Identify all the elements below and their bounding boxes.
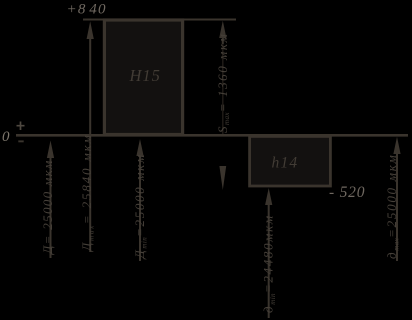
svg-text:Дmin=25000 мкм: Дmin=25000 мкм xyxy=(132,153,148,260)
svg-text:H15: H15 xyxy=(129,66,161,85)
svg-text:Д= 25000 мкм: Д= 25000 мкм xyxy=(40,159,55,256)
svg-text:+840: +840 xyxy=(67,2,107,18)
svg-text:h14: h14 xyxy=(272,155,299,172)
svg-text:дmax=25000 мкм: дmax=25000 мкм xyxy=(384,153,400,259)
svg-text:0: 0 xyxy=(2,129,10,145)
svg-text:Дmax= 25840 мкм: Дmax= 25840 мкм xyxy=(79,133,95,253)
svg-text:дmin=24480мкм: дmin=24480мкм xyxy=(261,214,277,313)
svg-text:- 520: - 520 xyxy=(329,184,365,201)
svg-text:Smax= 1360 мкм: Smax= 1360 мкм xyxy=(215,33,231,133)
